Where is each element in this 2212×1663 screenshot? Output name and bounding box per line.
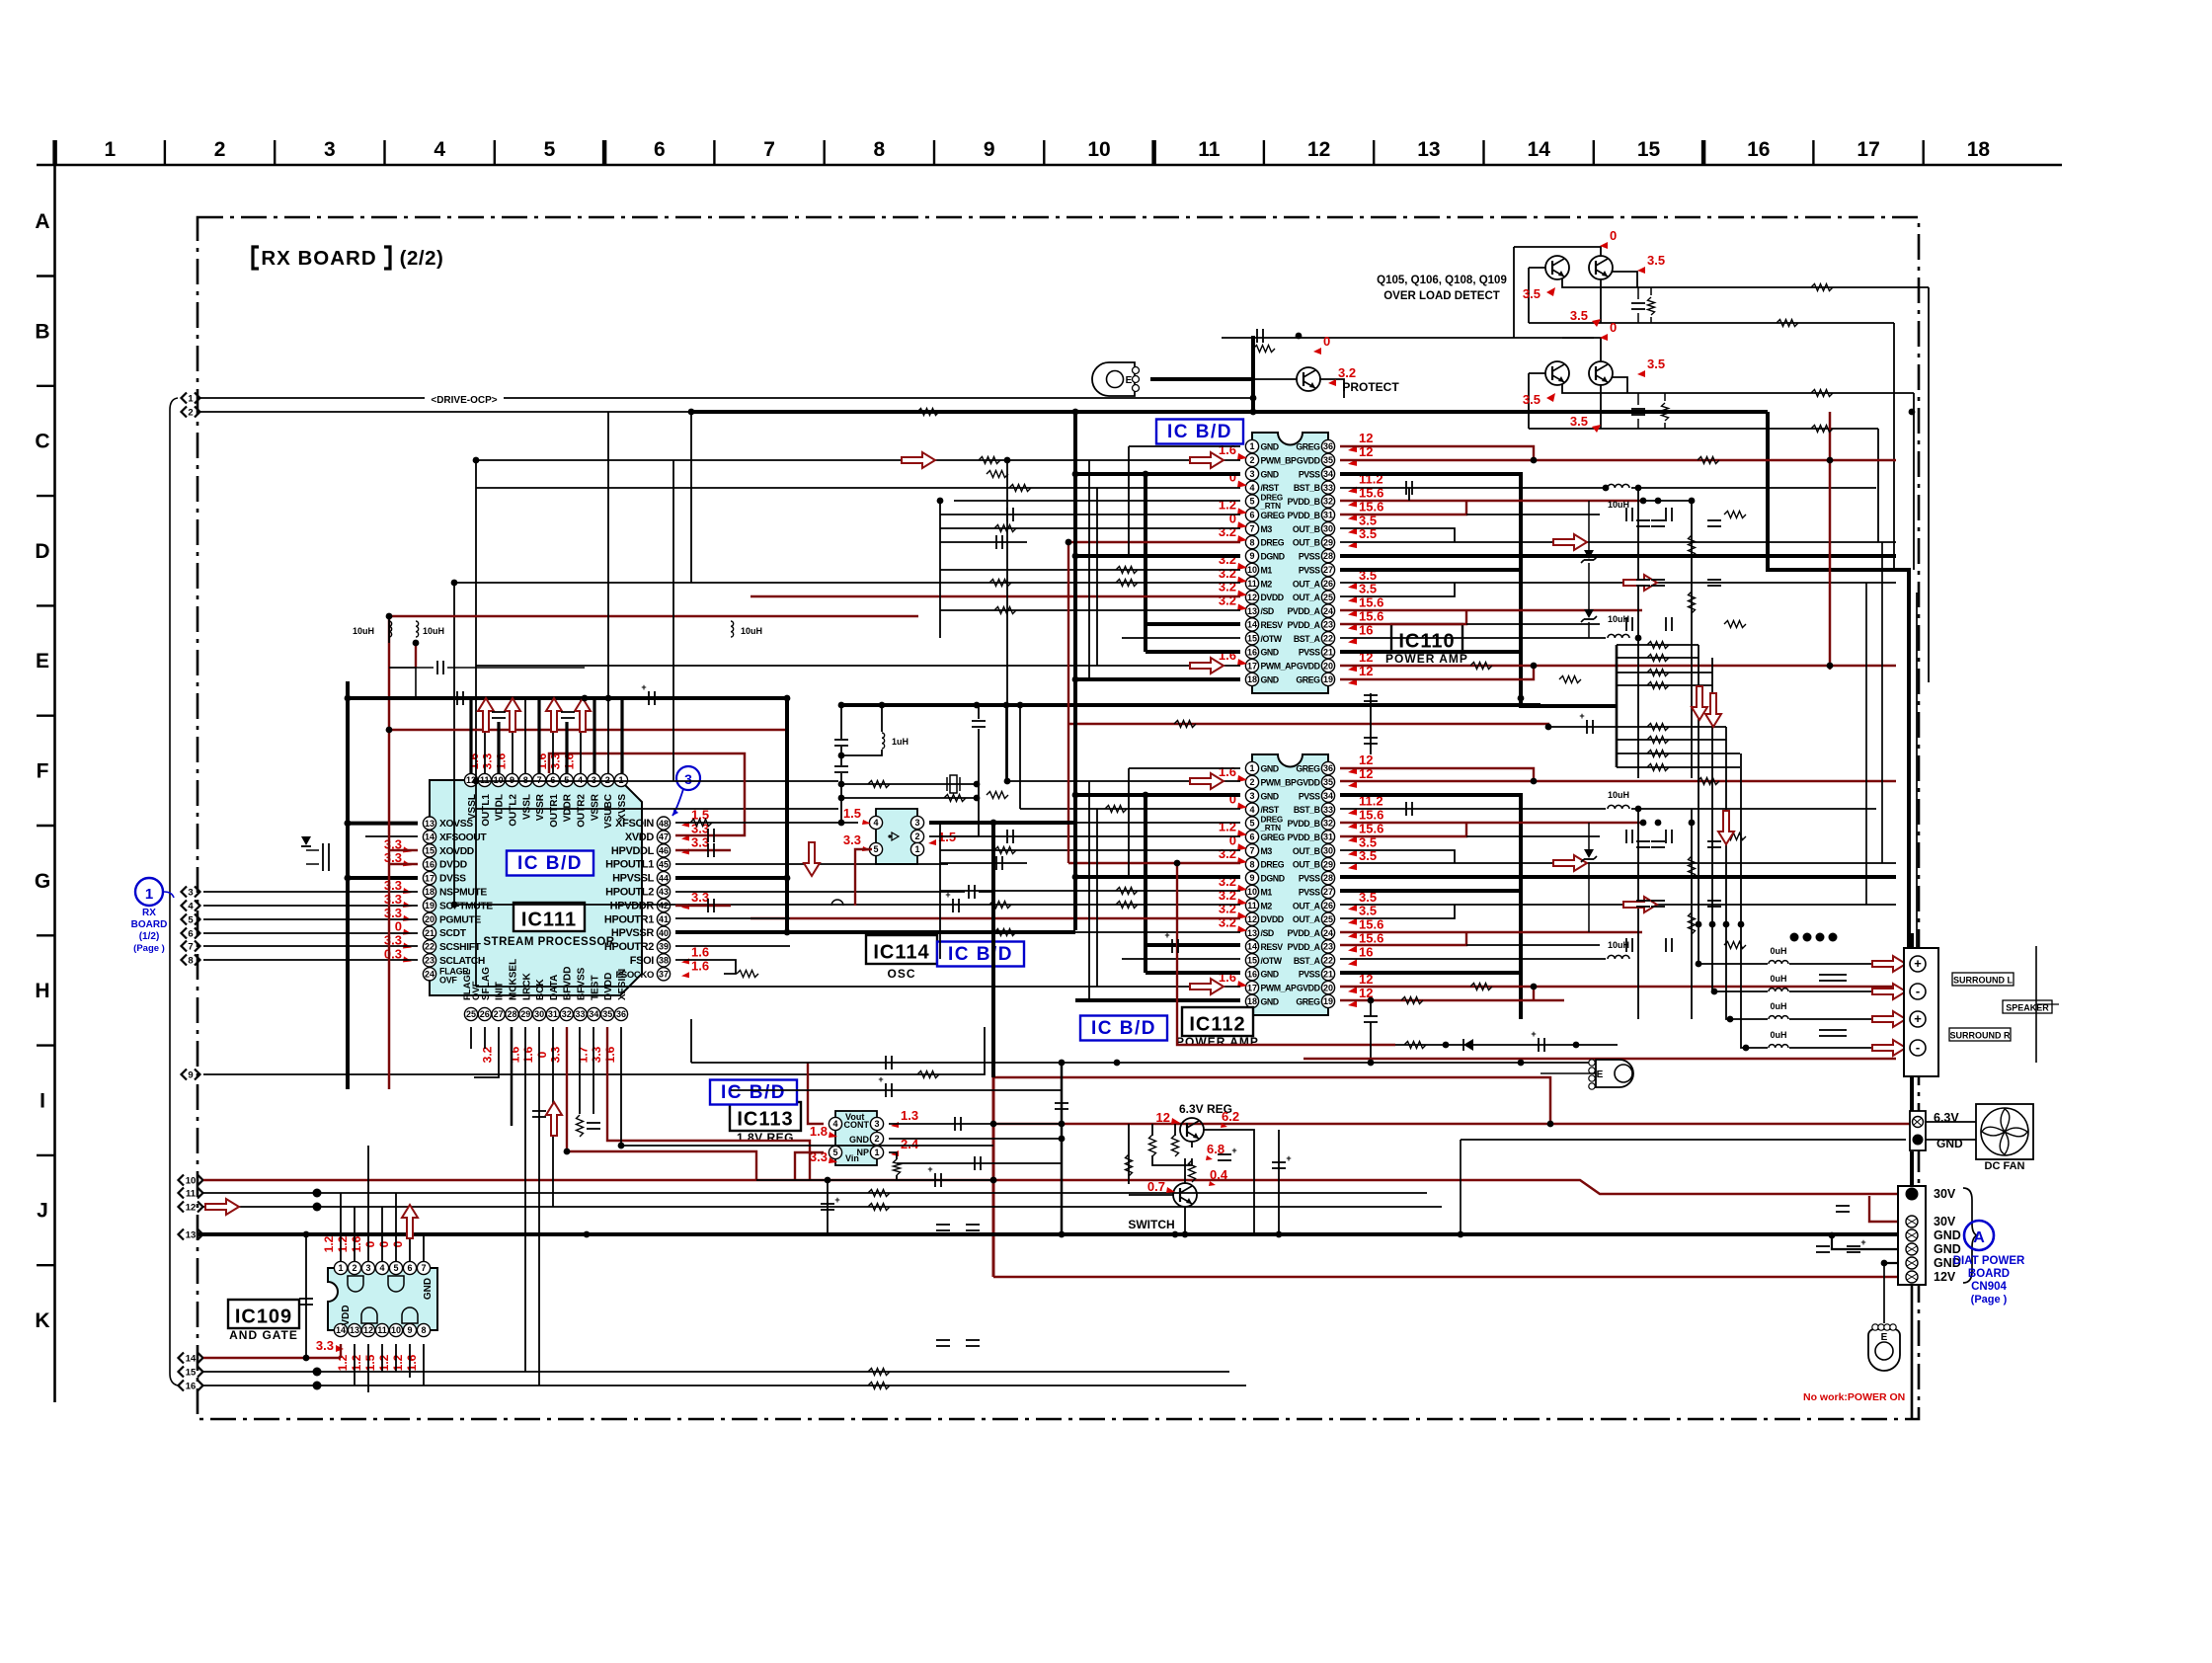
svg-text:RX BOARD: RX BOARD: [261, 247, 376, 270]
wire row 1178: [897, 1162, 1062, 1164]
svg-text:DVSS: DVSS: [439, 874, 466, 885]
wire osc row808: [841, 797, 977, 799]
wire q cell1 drop291: [1928, 287, 1930, 682]
capacitor sp2: [1833, 975, 1847, 981]
svg-text:PVDD_A: PVDD_A: [1288, 942, 1321, 952]
resistor bank4: [1647, 682, 1669, 689]
wire reg res rail3: [1174, 1124, 1176, 1136]
svg-text:21: 21: [1323, 647, 1333, 657]
svg-text:IC B/D: IC B/D: [1167, 422, 1232, 442]
wire conn7 scshift: [203, 945, 418, 947]
connector pin 13: [179, 1229, 203, 1241]
svg-text:1.8V REG: 1.8V REG: [737, 1131, 794, 1145]
svg-text:1: 1: [104, 138, 116, 161]
wire right filter caps top: [1642, 500, 1692, 502]
svg-text:IC114: IC114: [873, 942, 929, 964]
resistor m2b 112: [1116, 902, 1138, 909]
IC110 pin voltage values: [1219, 431, 1383, 685]
arrow up ic109: [402, 1205, 418, 1238]
inductor 10uH R3: [1608, 790, 1629, 809]
wire 63v cap: [1278, 1130, 1280, 1234]
wire BST_A22: [1340, 637, 1606, 639]
wire q105 down: [1600, 278, 1602, 323]
transistor Q109: [1545, 361, 1569, 385]
svg-text:0: 0: [1229, 832, 1236, 847]
wire bstb cap join: [1408, 488, 1410, 501]
svg-text:20: 20: [1323, 661, 1333, 671]
svg-text:SURROUND L: SURROUND L: [1953, 976, 2014, 986]
capacitor hpvddl46: [708, 843, 714, 857]
svg-text:3.3: 3.3: [549, 752, 563, 769]
wire sp vert2: [1712, 658, 1768, 991]
resistor mid gvdd: [1174, 721, 1196, 728]
resistor gvdd35 112: [1698, 778, 1719, 785]
IC114 OSC body: [869, 809, 923, 864]
svg-text:28: 28: [1323, 873, 1333, 883]
capacitor rg6: [1707, 901, 1721, 907]
svg-text:19: 19: [1323, 674, 1333, 684]
wire trunk x482: [475, 460, 477, 987]
svg-text:/RST: /RST: [1261, 805, 1280, 815]
svg-text:GND: GND: [1261, 469, 1279, 479]
arrow sp2: [1872, 984, 1906, 999]
svg-text:5: 5: [544, 138, 556, 161]
RX board outline (dash-dot): [197, 217, 1919, 1419]
svg-text:VDDL: VDDL: [495, 794, 506, 821]
arrow pwm_bp2: [1190, 452, 1224, 468]
svg-text:11: 11: [377, 1325, 387, 1335]
wire PVSS28: [1340, 554, 1896, 558]
wire GREG6 IC112: [940, 835, 1240, 837]
capacitor greg6: [1007, 508, 1013, 521]
arrow dn r1: [1692, 686, 1707, 720]
capacitor ic114 out2: [1164, 930, 1178, 953]
svg-text:AND GATE: AND GATE: [229, 1328, 298, 1342]
connector pin 9: [182, 1069, 200, 1081]
wire PVSS34: [1340, 474, 1617, 706]
svg-text:/SD: /SD: [1261, 606, 1274, 616]
wire thick y707: [348, 696, 787, 700]
connector pin 16: [179, 1381, 203, 1392]
IC109 reference label: [228, 1300, 299, 1342]
svg-text:PROTECT: PROTECT: [1342, 380, 1399, 394]
wire BST_A22 IC112: [1340, 958, 1606, 960]
arrow pwm_ap: [1190, 658, 1224, 673]
arrow sp4: [1872, 1040, 1906, 1056]
svg-text:1.5: 1.5: [843, 806, 861, 821]
svg-text:1.2: 1.2: [1219, 819, 1236, 833]
svg-text:HPOUTL1: HPOUTL1: [605, 859, 654, 871]
junction pc: [1829, 1232, 1836, 1239]
wire maroon row 1091: [993, 1077, 1550, 1124]
svg-text:45: 45: [659, 859, 669, 869]
wire conn11: [203, 1192, 1427, 1194]
svg-text:M2: M2: [1261, 901, 1273, 911]
wire fan links2: [1926, 1139, 1976, 1141]
wire sp vert1: [1698, 645, 1768, 964]
capacitor protect: [1257, 329, 1263, 343]
svg-text:34: 34: [1323, 791, 1333, 801]
svg-text:IC B/D: IC B/D: [517, 853, 583, 874]
capacitor sp4: [1833, 1030, 1847, 1036]
wire DREG8 IC112: [1068, 862, 1240, 864]
connector pin 1: [182, 393, 200, 405]
capacitor pvdda1: [1626, 617, 1632, 631]
svg-text:_RTN: _RTN: [1260, 824, 1282, 832]
wire resbank r7: [1617, 752, 1740, 754]
label 12V pin: [1934, 1270, 1956, 1284]
svg-text:SFLAG: SFLAG: [481, 967, 492, 1000]
wire osc row794: [841, 783, 977, 785]
svg-text:12: 12: [1156, 1110, 1170, 1125]
wire ic111 top p9: [512, 698, 513, 773]
resistor m1 112: [1116, 888, 1138, 895]
capacitor c16v: [966, 1340, 980, 1346]
capacitor row2p: [878, 1074, 892, 1097]
svg-text:14: 14: [186, 1354, 197, 1365]
inductor 10uH L1: [353, 621, 392, 637]
svg-text:2: 2: [1249, 777, 1254, 787]
crystal X1: [947, 775, 960, 793]
svg-text:7: 7: [1249, 523, 1254, 533]
svg-text:1: 1: [914, 844, 919, 854]
blue note circle A: [1964, 1221, 1994, 1250]
svg-text:1.6: 1.6: [508, 1046, 521, 1063]
capacitor pvdda2: [1666, 617, 1672, 631]
svg-text:OUTL1: OUTL1: [481, 794, 492, 827]
svg-text:HPOUTR1: HPOUTR1: [604, 913, 654, 925]
wire loop 1103 IC112: [1088, 781, 1090, 1000]
svg-text:0: 0: [1610, 320, 1617, 335]
wire ic113 gnd: [889, 1138, 1062, 1140]
capacitor bstb 112: [1406, 802, 1412, 816]
svg-text:+: +: [1579, 711, 1584, 721]
wire ic109 p1 up: [340, 1193, 342, 1261]
svg-text:_RTN: _RTN: [1260, 502, 1282, 511]
junction c12: [313, 1203, 322, 1212]
svg-text:1.2: 1.2: [391, 1354, 405, 1371]
wire ic111 top p2: [607, 698, 609, 773]
svg-text:0: 0: [1610, 228, 1617, 243]
resistor pvddb 112: [1724, 833, 1746, 840]
svg-text:DGND: DGND: [1261, 552, 1285, 562]
svg-text:14: 14: [1247, 620, 1257, 630]
wire xfsoout: [365, 835, 418, 837]
capacitor ic111 top2: [457, 691, 463, 705]
wire maroon hpvddl: [675, 849, 731, 851]
svg-text:GREG: GREG: [1296, 442, 1320, 452]
wire resbank r4: [1617, 684, 1712, 686]
svg-text:6: 6: [1249, 832, 1254, 842]
wire GND16 IC112: [1145, 971, 1240, 975]
resistor m3: [994, 525, 1016, 532]
label GND pin: [1934, 1256, 1961, 1270]
wire bfvdd vert: [567, 1027, 756, 1180]
svg-text:33: 33: [576, 1009, 586, 1019]
wire q2 cap: [1638, 393, 1665, 429]
capacitor greg6 112: [1007, 830, 1013, 843]
wire ic111 top p7: [537, 698, 540, 773]
svg-text:GND: GND: [1934, 1242, 1961, 1256]
wire 30v2 stub: [1869, 1196, 1912, 1222]
wire ic113 row2: [731, 1089, 1062, 1091]
wire DREG8 IC112 left: [940, 862, 1027, 864]
svg-text:+: +: [1914, 1011, 1922, 1026]
arrow pwm_bp: [902, 452, 935, 468]
wire ic111 top p4: [580, 698, 582, 773]
svg-text:1.6: 1.6: [1219, 764, 1236, 779]
arrow up a1: [478, 698, 494, 732]
wire DRIVE-OCP net: [197, 336, 1253, 398]
svg-text:25: 25: [1323, 593, 1333, 602]
svg-text:5: 5: [873, 844, 878, 854]
svg-text:3.2: 3.2: [1219, 902, 1236, 916]
svg-text:XOVDD: XOVDD: [439, 846, 474, 857]
wire GREG_RTN5 IC112: [954, 822, 1240, 824]
svg-text:J: J: [37, 1200, 48, 1223]
svg-text:3: 3: [684, 771, 692, 787]
svg-text:BOARD: BOARD: [131, 919, 168, 930]
wire inter-amp GVDD: [1068, 724, 1548, 727]
wire GND bus thick: [691, 410, 1768, 414]
wire GND pin3 IC110: [1075, 472, 1240, 476]
svg-text:48: 48: [659, 819, 669, 829]
svg-text:PVSS: PVSS: [1299, 565, 1320, 575]
wire hpvssl44: [675, 876, 787, 880]
diode mid 112: [1463, 1039, 1473, 1051]
wire trunk x460: [453, 583, 455, 905]
svg-text:+: +: [1231, 1146, 1236, 1155]
junction c11: [313, 1189, 322, 1198]
wire ic111 top p11: [484, 698, 486, 773]
svg-text:PWM_AP: PWM_AP: [1261, 984, 1297, 993]
svg-text:0: 0: [535, 1051, 549, 1058]
svg-text:16: 16: [1747, 138, 1770, 161]
connector pin 6: [182, 928, 200, 940]
wire conn5 pgmute: [203, 918, 418, 920]
svg-text:BST_A: BST_A: [1294, 634, 1321, 644]
svg-text:31: 31: [1323, 511, 1333, 520]
resistor greg19: [1559, 676, 1581, 683]
svg-text:0uH: 0uH: [1770, 1001, 1786, 1011]
wire q cell1 left: [1513, 247, 1515, 338]
wire mid 1058 mar: [1303, 1058, 1896, 1060]
wire OUT_A25 IC112: [1340, 905, 1455, 918]
capacitor rg3: [1636, 901, 1650, 907]
svg-text:13: 13: [1247, 928, 1257, 938]
capacitor b1: [587, 1123, 600, 1129]
capacitor rf5: [1707, 520, 1721, 526]
wire q105 emit: [1612, 272, 1637, 287]
wire OUT_B30 IC112: [1340, 850, 1455, 863]
wire resbank vert: [1616, 645, 1619, 767]
wire hop hpvddr: [831, 900, 843, 906]
op-amp IC110 POWER AMP body: [1245, 433, 1334, 693]
IC B/D label near IC113: [710, 1080, 797, 1105]
svg-text:/OTW: /OTW: [1261, 634, 1283, 644]
svg-text:GND: GND: [423, 1278, 434, 1300]
junction t1: [582, 695, 589, 702]
svg-text:34: 34: [589, 1009, 598, 1019]
svg-text:B: B: [35, 320, 49, 343]
svg-text:13: 13: [1417, 138, 1440, 161]
svg-text:26: 26: [1323, 579, 1333, 589]
arrow out_a 112: [1623, 897, 1657, 912]
svg-text:IC111: IC111: [521, 910, 577, 931]
wire speaker + rail: [1916, 593, 1918, 948]
svg-text:OVER LOAD DETECT: OVER LOAD DETECT: [1383, 290, 1500, 302]
IC113 reference label: [730, 1102, 801, 1145]
IC B/D label near IC114: [937, 942, 1024, 967]
wire top caps: [415, 668, 417, 698]
wire PVDD_B32: [1340, 500, 1642, 502]
wire ic109 p12 dn: [367, 1344, 369, 1392]
wire overload trunk: [1222, 337, 1594, 339]
wire M3 IC112: [940, 849, 1240, 851]
IC B/D label near IC111: [507, 851, 593, 876]
wire gvdd35 junction: [1829, 460, 1832, 670]
svg-text:27: 27: [494, 1009, 504, 1019]
wire maroon hpvddr: [675, 905, 731, 907]
grid ruler frame: [35, 138, 2062, 1402]
svg-text:6.3V: 6.3V: [1934, 1111, 1959, 1125]
svg-text:3.2: 3.2: [1338, 365, 1356, 380]
junction l2: [345, 875, 352, 882]
wire test vert: [592, 1027, 594, 1114]
svg-text:+: +: [945, 890, 950, 900]
capacitor top c3 plus: [609, 682, 731, 705]
wire ic111 top p1: [620, 698, 623, 773]
svg-text:10uH: 10uH: [1608, 940, 1629, 950]
arrow sp3: [1872, 1011, 1906, 1027]
inductor 0uH s1: [1769, 946, 1788, 964]
svg-text:CONT: CONT: [844, 1120, 870, 1130]
svg-text:XFSIIN: XFSIIN: [617, 969, 628, 1000]
resistor rst 112: [1105, 806, 1127, 813]
resistor bank1: [1647, 642, 1669, 649]
svg-text:GND: GND: [1261, 791, 1279, 801]
wire gnd5 stub: [1884, 1262, 1912, 1264]
svg-text:3.3: 3.3: [549, 1046, 563, 1063]
wire vert 1033: [1019, 705, 1021, 809]
capacitor rf3: [1636, 580, 1650, 586]
arrow up a4: [575, 698, 591, 732]
wire osc 1uh out: [841, 750, 882, 755]
svg-text:OUT_B: OUT_B: [1293, 538, 1320, 548]
svg-text:35: 35: [602, 1009, 612, 1019]
resistor rst: [1009, 485, 1031, 492]
wire ic109 p2 up: [354, 1207, 355, 1261]
resistor bank3: [1647, 670, 1669, 676]
wire OUT_A26: [1340, 582, 1896, 584]
svg-text:18: 18: [1247, 996, 1257, 1006]
svg-text:2: 2: [352, 1263, 356, 1273]
capacitor ic113 r1: [955, 1117, 961, 1131]
wire maroon rail739: [389, 729, 787, 731]
wire hpoutr1: [675, 917, 790, 919]
wire q108 emit: [1612, 377, 1627, 393]
capacitor c163: [821, 1195, 840, 1210]
svg-text:PVSS: PVSS: [1299, 874, 1320, 884]
wire maroon 6.3V run: [993, 1123, 1912, 1126]
svg-text:I: I: [39, 1089, 45, 1112]
svg-text:3.5: 3.5: [1523, 286, 1540, 301]
IC B/D label near IC110: [1156, 420, 1243, 444]
svg-text:PVSS: PVSS: [1299, 552, 1320, 562]
wire ic111 top p8: [524, 698, 526, 773]
svg-text:32: 32: [1323, 819, 1333, 829]
svg-text:GVDD: GVDD: [1297, 455, 1320, 465]
svg-text:0.7: 0.7: [1147, 1179, 1165, 1194]
svg-text:4: 4: [188, 902, 194, 912]
wire /RST to IC110: [476, 487, 1240, 489]
svg-text:29: 29: [1323, 537, 1333, 547]
wire GVDD20: [1340, 665, 1896, 667]
wire hpoutr2: [675, 945, 790, 947]
wire right filter2 v: [1637, 809, 1639, 1019]
wire ic111 top rail676: [389, 667, 416, 669]
svg-text:RESV: RESV: [1261, 620, 1284, 630]
resistor q ovl4: [1811, 426, 1833, 433]
wire sp coil out2: [1789, 990, 1877, 992]
svg-text:A: A: [35, 210, 49, 233]
svg-text:3.2: 3.2: [1219, 566, 1236, 581]
wire trunk black x1006: [991, 823, 995, 1077]
svg-text:24: 24: [1323, 606, 1333, 616]
wire cap163 vert: [827, 1180, 829, 1234]
label SURROUND R: [1949, 1028, 2011, 1041]
svg-text:17: 17: [425, 873, 434, 883]
capacitor sw2: [1272, 1153, 1292, 1168]
svg-text:33: 33: [1323, 483, 1333, 493]
IC114 reference label: [866, 935, 937, 981]
svg-text:GREG: GREG: [1296, 764, 1320, 774]
svg-text:15: 15: [186, 1368, 197, 1379]
svg-text:18: 18: [1967, 138, 1991, 161]
wire ic109 p3 up: [367, 1146, 369, 1261]
svg-text:IC B/D: IC B/D: [948, 944, 1013, 965]
resistor gvdd20 112: [1470, 984, 1492, 990]
wire q cell2 drop398: [1913, 393, 1915, 570]
svg-text:+: +: [1286, 1153, 1291, 1163]
wire speaker drop: [1910, 933, 1914, 948]
svg-text:1: 1: [1249, 763, 1254, 773]
svg-text:30: 30: [1323, 523, 1333, 533]
svg-text:DVDD: DVDD: [1261, 914, 1284, 924]
svg-text:10uH: 10uH: [1608, 500, 1629, 510]
svg-text:TEST: TEST: [590, 975, 600, 1000]
wire SD13 IC112: [940, 931, 1240, 933]
wire BST_B33 coil out: [1631, 487, 1876, 489]
connector pin 3: [182, 887, 200, 899]
svg-text:11: 11: [1247, 901, 1257, 911]
resistor pvddb: [1724, 512, 1746, 518]
wire loop 1103 IC110: [1088, 460, 1090, 679]
wire sw collector: [1184, 1158, 1186, 1184]
arrow dn r3: [1718, 811, 1734, 844]
svg-text:8: 8: [188, 956, 193, 967]
wire OUT_B29: [1340, 541, 1896, 543]
resistor pvdda: [1724, 621, 1746, 628]
svg-text:No work:POWER ON: No work:POWER ON: [1803, 1391, 1905, 1403]
svg-text:1.6: 1.6: [603, 1046, 617, 1063]
svg-text:GVDD: GVDD: [1297, 777, 1320, 787]
zener d2: [1581, 609, 1597, 638]
resistor swtch3: [1172, 1135, 1179, 1156]
svg-text:M1: M1: [1261, 565, 1273, 575]
svg-text:1.6: 1.6: [563, 752, 577, 769]
wire GND18 IC112: [1075, 998, 1240, 1002]
